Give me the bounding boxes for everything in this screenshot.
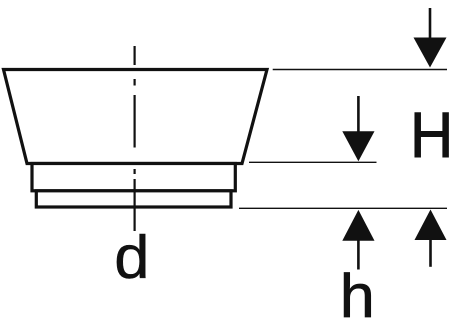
svg-text:d: d	[114, 224, 149, 291]
svg-text:H: H	[410, 100, 450, 171]
svg-text:h: h	[340, 263, 375, 320]
